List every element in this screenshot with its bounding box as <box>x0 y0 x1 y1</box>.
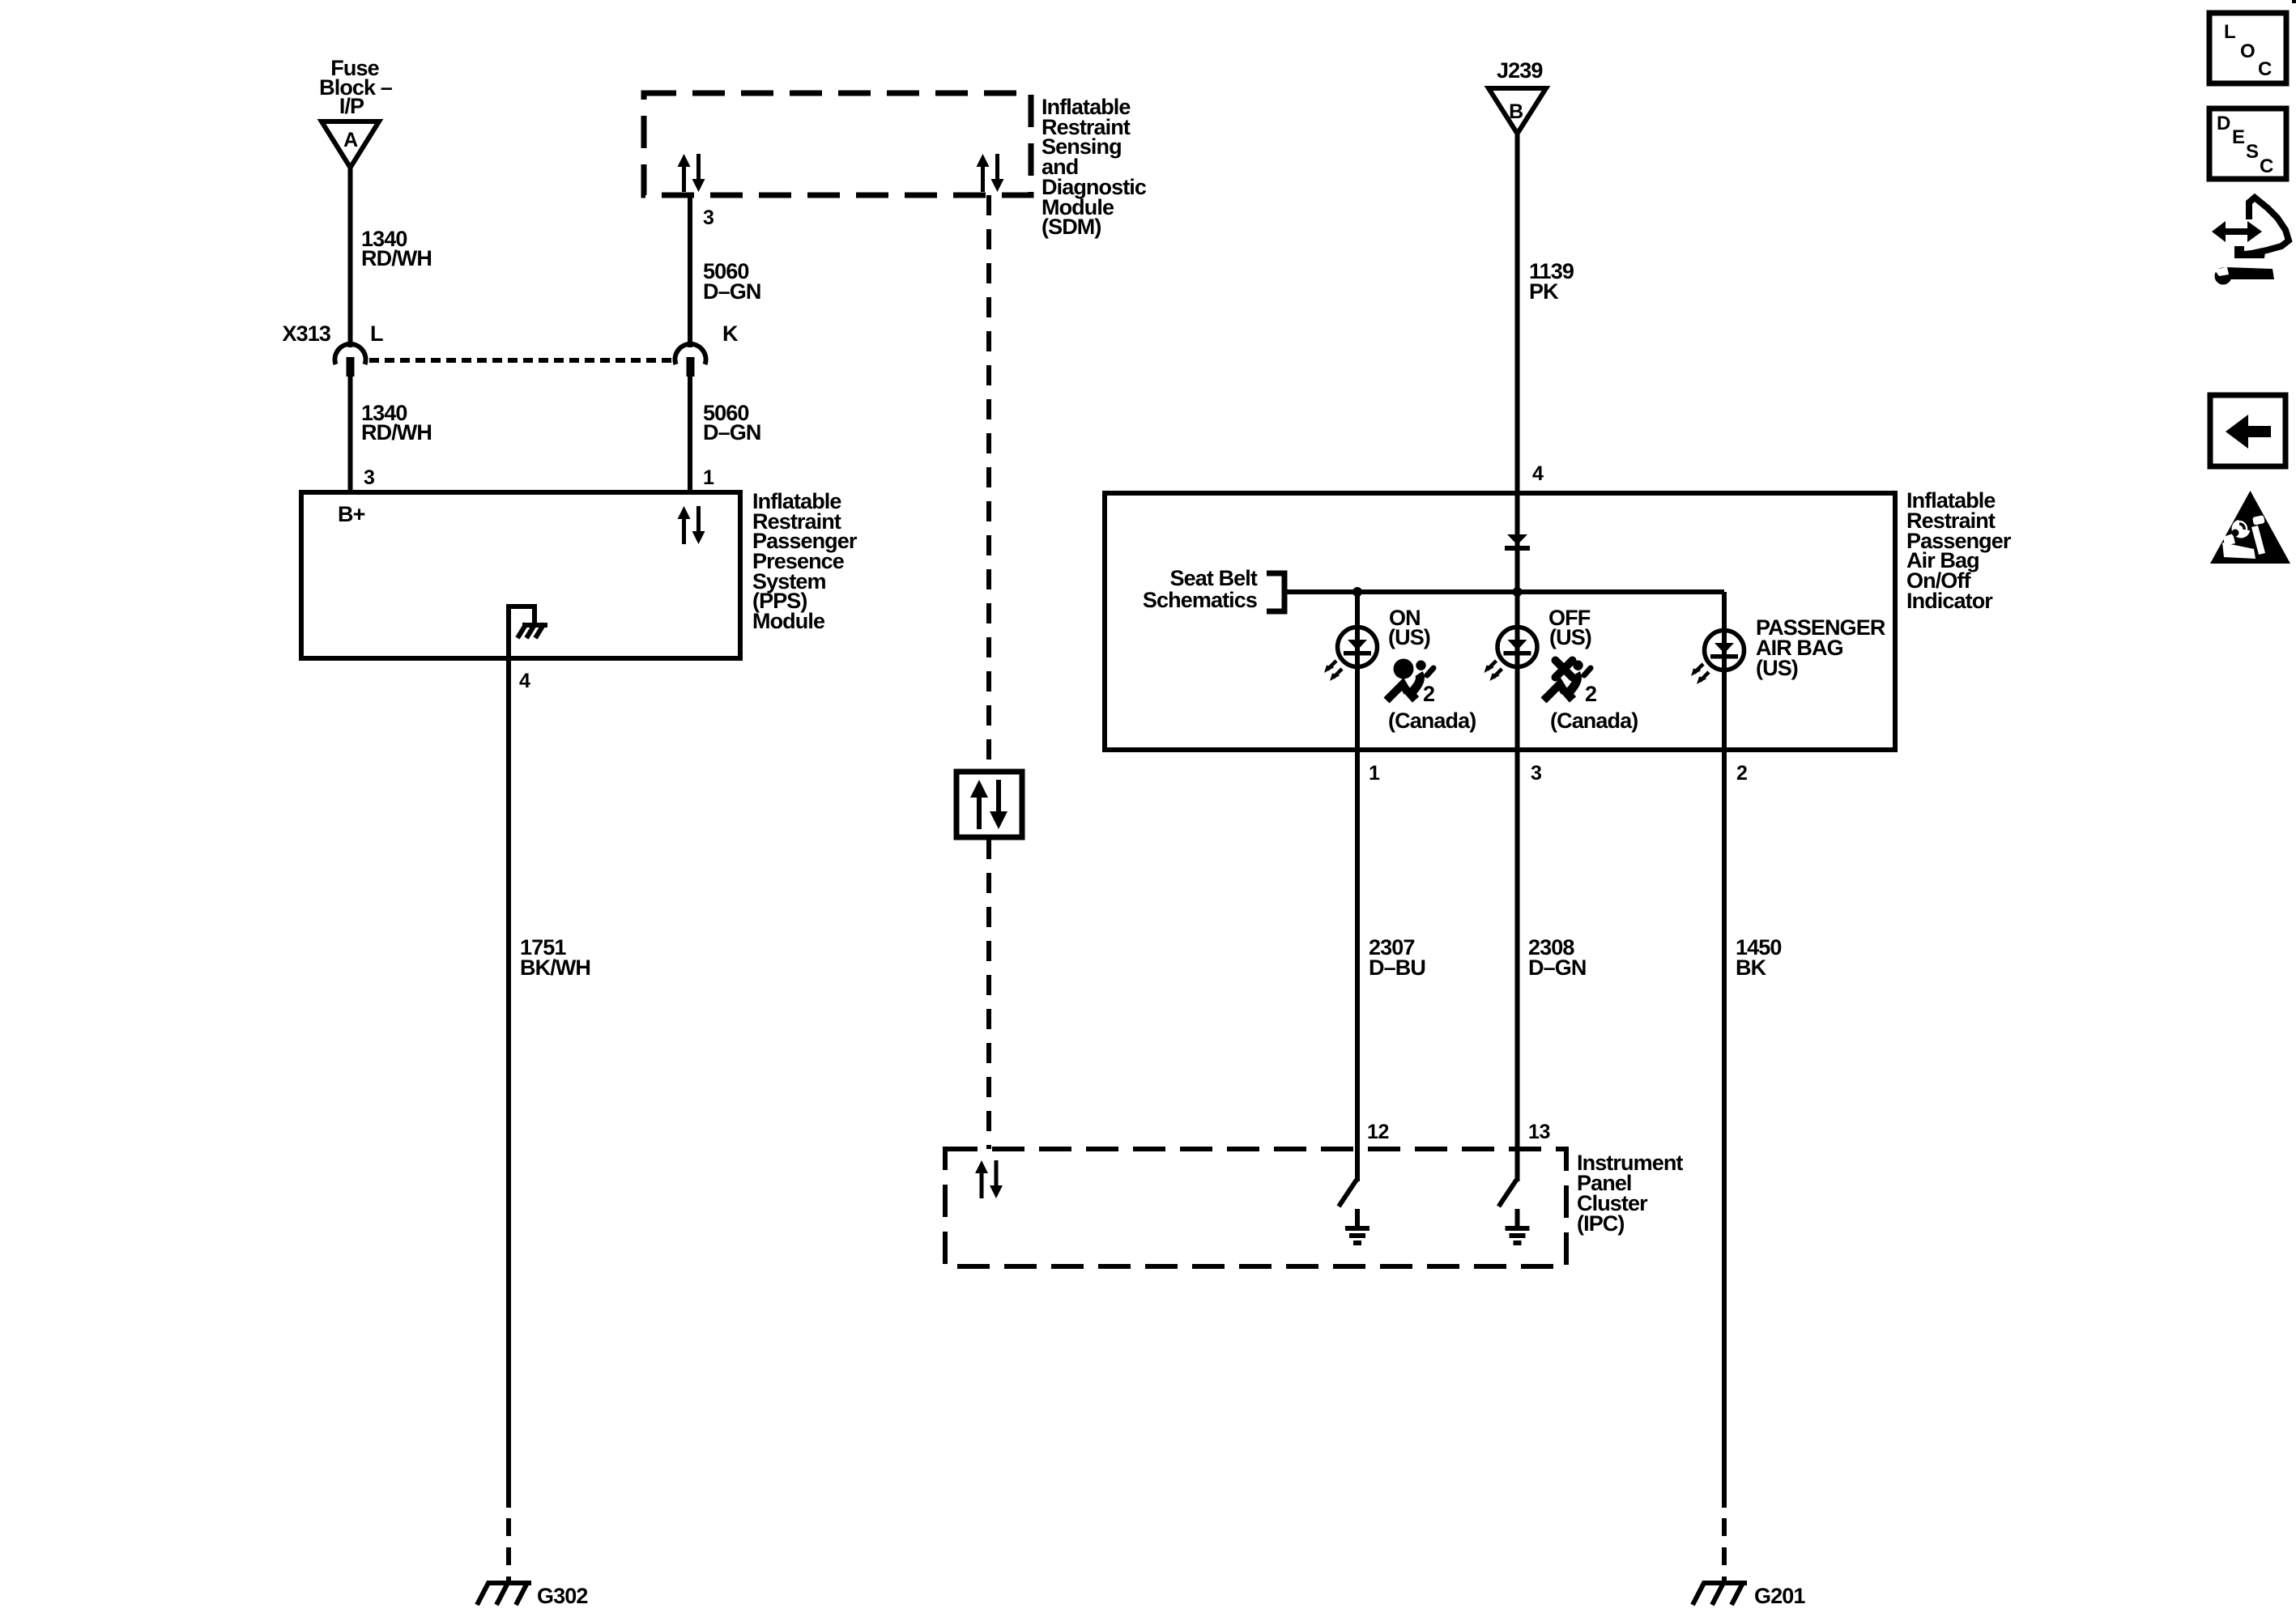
wire: X313 K to PPS pin 1 <box>688 377 692 491</box>
SDM label text <box>1042 95 1147 239</box>
power triangle B (J239 feed) <box>1489 88 1546 134</box>
internal bus wire from bracket across LEDs <box>1287 589 1724 594</box>
svg-text:J239: J239 <box>1497 58 1543 83</box>
svg-text:2: 2 <box>1585 682 1596 706</box>
svg-text:K: K <box>722 321 739 346</box>
PPS label text <box>752 489 858 633</box>
ground G201 (rake symbol) <box>1693 1581 1747 1605</box>
svg-text:G302: G302 <box>537 1584 587 1608</box>
svg-text:1: 1 <box>703 466 714 489</box>
SDM dashed box (Inflatable Restraint Sensing and Diagnostic Module) <box>644 93 1031 195</box>
svg-text:S: S <box>2246 141 2259 163</box>
wire: J239 to indicator pin 4 (1139 PK) <box>1515 134 1520 493</box>
PPS internal ground (chassis) <box>509 606 547 658</box>
switch blade at IPC pin 13 <box>1499 1180 1517 1206</box>
reference bracket <box>1267 573 1284 611</box>
wire label 2308 D-GN <box>1528 935 1586 980</box>
svg-text:B: B <box>1509 100 1523 123</box>
wire: indicator pin 1 to IPC pin 12 (2307 D-BU) <box>1355 750 1360 1181</box>
in-line serial data connector box with arrows <box>956 772 1022 837</box>
dashed in-connector jumper line L to K <box>369 358 671 363</box>
wire: fuse triangle A to connector X313 pin L <box>348 168 353 347</box>
svg-text:Module: Module <box>752 609 825 633</box>
svg-text:D–BU: D–BU <box>1369 955 1425 980</box>
svg-text:C: C <box>2258 58 2272 80</box>
PPS serial-data arrows <box>678 506 705 544</box>
switch blade at IPC pin 12 <box>1339 1180 1357 1206</box>
svg-text:D–GN: D–GN <box>703 279 760 304</box>
svg-text:2: 2 <box>1423 682 1434 706</box>
svg-text:13: 13 <box>1528 1121 1550 1143</box>
LOC icon box <box>2209 13 2286 83</box>
IPC label text <box>1577 1151 1683 1236</box>
wire: X313 L to PPS pin 3 <box>348 377 353 491</box>
airbag OFF icon (Canada, crossed) <box>1544 661 1591 701</box>
svg-text:A: A <box>343 129 358 151</box>
power triangle A (Fuse Block feed) <box>322 121 379 168</box>
indicator box (Inflatable Restraint Passenger Air Bag On/Off Indicator) <box>1105 493 1895 750</box>
ground G302 (rake symbol) <box>477 1581 531 1605</box>
svg-text:RD/WH: RD/WH <box>361 246 432 270</box>
IPC serial-data arrows <box>975 1160 1003 1198</box>
svg-text:(US): (US) <box>1549 625 1591 649</box>
airbag ON icon (Canada) <box>1387 659 1433 701</box>
wire: pin 4 down inside box through diode <box>1515 493 1520 750</box>
dashed wire tail to G302 <box>506 1518 511 1581</box>
fuse block label "Fuse Block - I/P" <box>319 56 393 118</box>
wire label 5060 D-GN (lower) <box>703 401 760 445</box>
IPC dashed box (Instrument Panel Cluster) <box>945 1149 1566 1266</box>
wire label 1340 RD/WH (lower) <box>361 401 432 445</box>
svg-text:B+: B+ <box>338 502 365 526</box>
wire label 1751 BK/WH <box>520 935 590 980</box>
svg-text:(Canada): (Canada) <box>1550 709 1638 733</box>
back arrow icon box <box>2210 395 2285 466</box>
svg-text:(US): (US) <box>1756 656 1798 680</box>
svg-text:1: 1 <box>1369 762 1380 785</box>
dashed wire tail to G201 <box>1722 1518 1727 1581</box>
svg-text:Seat Belt: Seat Belt <box>1170 566 1258 590</box>
connector X313 terminal L (female arc + male pin) <box>335 344 366 377</box>
svg-text:C: C <box>2260 155 2273 177</box>
wire: indicator pin 2 down (1450 BK) <box>1722 750 1727 1508</box>
IPC signal ground under pin 12 <box>1345 1209 1370 1245</box>
svg-text:X313: X313 <box>283 321 331 346</box>
svg-text:L: L <box>370 321 383 346</box>
wire label 2307 D-BU <box>1369 935 1425 980</box>
LED 2 (OFF/US indicator lamp) <box>1485 628 1538 682</box>
svg-text:4: 4 <box>519 670 530 692</box>
svg-text:4: 4 <box>1532 462 1544 485</box>
indicator label text <box>1906 488 2012 613</box>
wire: SDM pin 3 to connector X313 pin K <box>688 195 692 347</box>
svg-text:Indicator: Indicator <box>1906 589 1993 613</box>
Seat Belt Schematics reference label <box>1143 566 1258 612</box>
label OFF (US) <box>1548 606 1591 649</box>
svg-text:D–GN: D–GN <box>703 420 760 445</box>
junction dot at main feed crossing <box>1513 587 1523 597</box>
svg-text:O: O <box>2240 40 2256 62</box>
svg-text:3: 3 <box>703 206 714 229</box>
svg-text:2: 2 <box>1736 762 1748 785</box>
diagnostic icon (double arrow, car outline, wrench) <box>2212 198 2289 285</box>
svg-text:G201: G201 <box>1754 1584 1805 1608</box>
label PASSENGER AIR BAG (US) <box>1756 615 1885 680</box>
svg-text:3: 3 <box>1531 762 1542 785</box>
diode (cathode down) on pin 4 feed <box>1505 534 1530 551</box>
svg-text:BK: BK <box>1736 955 1767 980</box>
svg-text:PK: PK <box>1529 279 1559 304</box>
LED 3 (PASSENGER AIR BAG US lamp) <box>1691 631 1744 685</box>
wire label 1340 RD/WH (upper) <box>361 227 432 270</box>
SDM serial-data arrows (left pair) <box>678 154 705 192</box>
page corner tick <box>2292 0 2296 3</box>
svg-text:(SDM): (SDM) <box>1042 215 1101 239</box>
connector X313 terminal K (female arc + male pin) <box>675 344 706 377</box>
SDM serial-data arrows (right pair) <box>977 154 1004 192</box>
junction dot at LED1 branch <box>1352 587 1362 597</box>
dashed vertical serial data wire (SDM to IPC) <box>986 195 991 770</box>
svg-text:Schematics: Schematics <box>1143 588 1257 612</box>
svg-text:RD/WH: RD/WH <box>361 420 432 445</box>
svg-text:(IPC): (IPC) <box>1577 1211 1625 1236</box>
svg-text:I/P: I/P <box>339 94 364 118</box>
LED 1 (ON/US indicator lamp) <box>1324 628 1378 682</box>
svg-text:BK/WH: BK/WH <box>520 955 590 980</box>
svg-text:D–GN: D–GN <box>1528 955 1586 980</box>
airbag caution triangle icon <box>2210 491 2290 564</box>
PPS module box (Inflatable Restraint Passenger Presence System Module) <box>301 492 740 658</box>
wire: LED1 branch down <box>1355 592 1360 750</box>
svg-text:D: D <box>2217 113 2230 134</box>
svg-text:L: L <box>2224 21 2236 43</box>
svg-text:12: 12 <box>1367 1121 1389 1143</box>
wire label 5060 D-GN (upper) <box>703 259 760 304</box>
wire: indicator pin 3 to IPC pin 13 (2308 D-GN) <box>1515 750 1520 1181</box>
svg-text:E: E <box>2232 126 2245 148</box>
label ON (US) <box>1388 606 1430 649</box>
wire: LED3 branch down <box>1722 592 1727 750</box>
wire label 1139 PK <box>1529 259 1574 304</box>
wire: PPS pin 4 down (1751 BK/WH) <box>506 658 511 1508</box>
wire label 1450 BK <box>1736 935 1781 980</box>
IPC signal ground under pin 13 <box>1506 1209 1530 1245</box>
svg-text:(Canada): (Canada) <box>1388 709 1476 733</box>
svg-text:3: 3 <box>364 466 375 489</box>
DESC icon box <box>2209 109 2286 179</box>
svg-text:(US): (US) <box>1388 625 1430 649</box>
